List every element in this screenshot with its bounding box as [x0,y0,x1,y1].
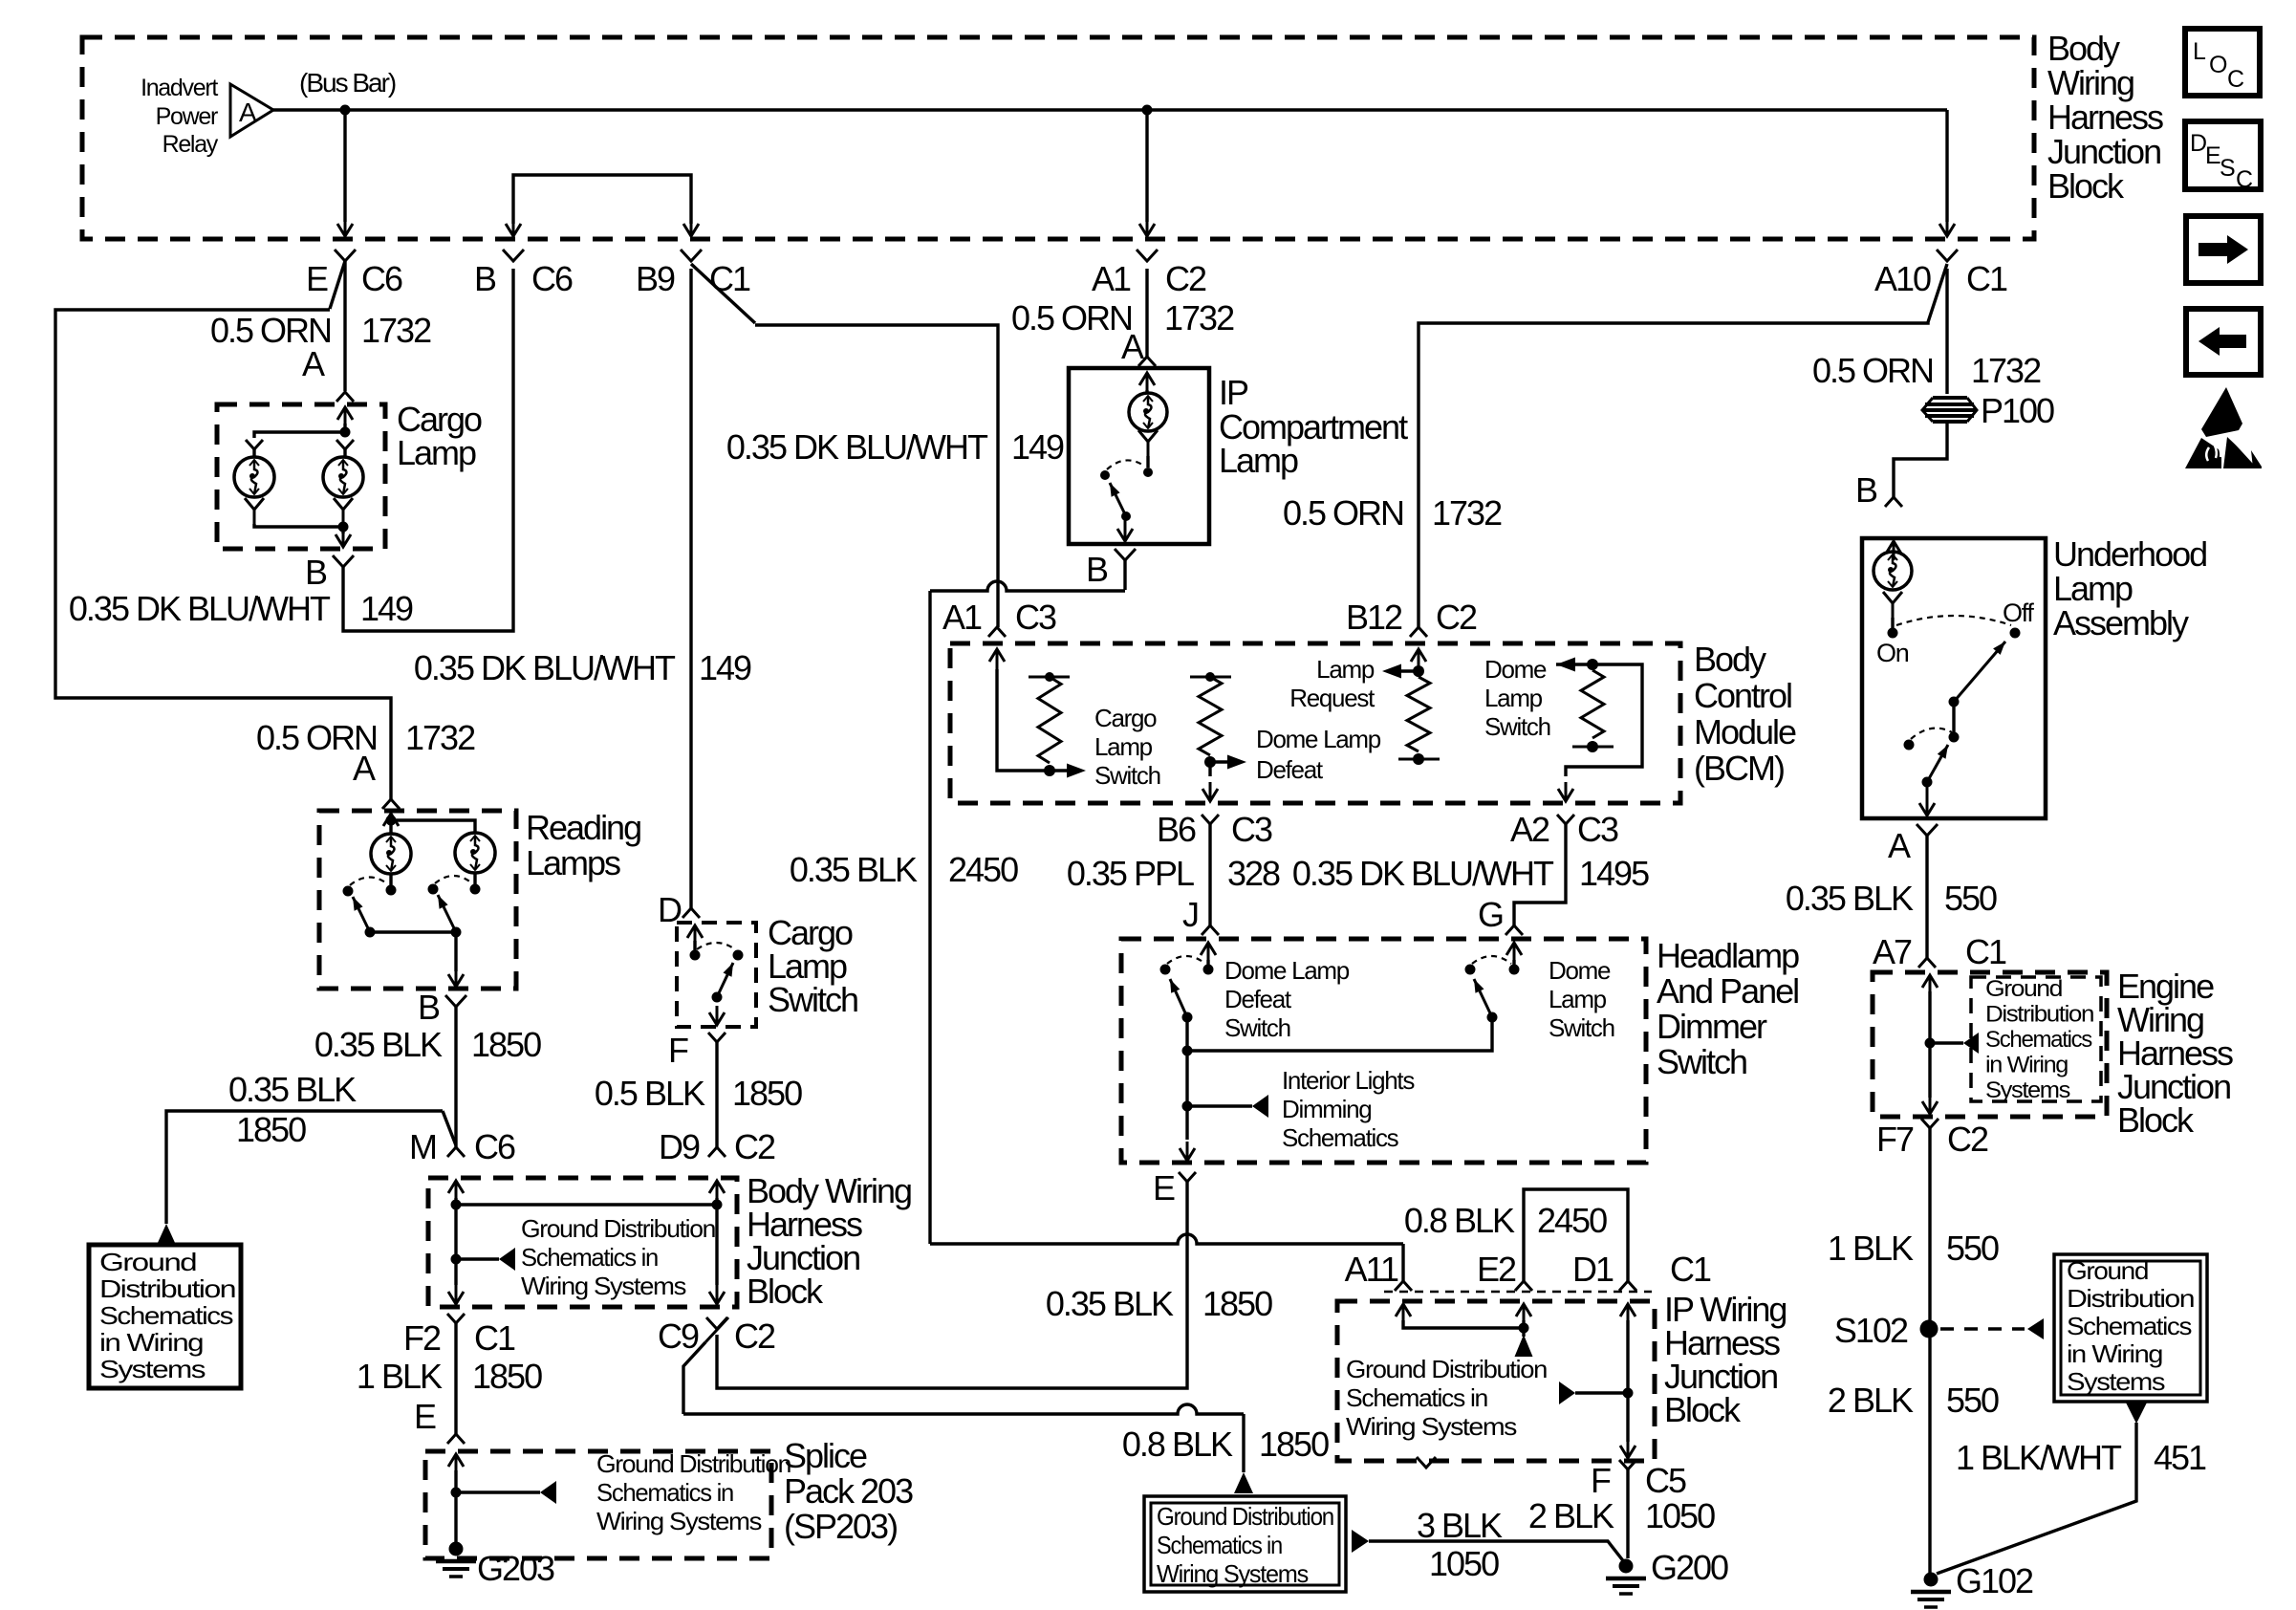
ground G200 [1619,1559,1634,1574]
svg-text:0.5 ORN: 0.5 ORN [1812,351,1933,390]
switch S5: Cargo Lamp Switch (dashed box) [677,923,756,1027]
svg-text:D: D [2190,130,2206,157]
svg-text:G: G [1478,895,1503,934]
reference arrow: Interior Lights Dimming Schematics [1187,1104,1252,1107]
svg-text:M: M [409,1127,436,1166]
svg-text:B9: B9 [636,259,675,298]
svg-text:451: 451 [2154,1438,2206,1477]
terminal D of Cargo Lamp Switch [682,908,700,918]
svg-text:C3: C3 [1577,810,1618,849]
svg-text:Distribution: Distribution [99,1274,235,1303]
svg-text:1850: 1850 [236,1110,306,1149]
svg-text:1850: 1850 [1202,1284,1272,1323]
svg-text:0.35 DK BLU/WHT: 0.35 DK BLU/WHT [69,589,331,628]
connector B9/C1 of body junction block [681,250,702,261]
svg-text:1732: 1732 [1971,351,2041,390]
svg-text:Block: Block [1664,1390,1742,1429]
connector B/C6 of body junction block [503,250,524,261]
wire: 0.35 PPL 328 to dimmer switch J [1208,824,1211,925]
svg-text:Harness: Harness [2047,98,2163,137]
svg-text:2450: 2450 [1537,1201,1607,1240]
svg-text:Lamps: Lamps [526,843,620,882]
wire: drop to terminal A1/C2 with exit arrow [1145,110,1148,222]
wire: 0.35 BLK 1850 from reading lamps B to M/C6 [454,1007,457,1147]
svg-text:1850: 1850 [732,1074,802,1113]
svg-text:Wiring Systems: Wiring Systems [596,1507,762,1535]
connector F7/C2 [1921,1119,1939,1128]
svg-text:C1: C1 [1966,259,2007,298]
wire: internal jumper B/C6 to B9/C1 with exit arrows [513,175,691,224]
connector A1/C2 of IP harness [1137,250,1158,261]
reference arrow into ground distribution box [1234,1472,1253,1493]
svg-text:Ground: Ground [1985,976,2062,1002]
svg-text:550: 550 [1946,1229,1999,1268]
svg-text:1732: 1732 [1164,298,1234,337]
svg-text:F7: F7 [1876,1120,1914,1159]
svg-text:(BCM): (BCM) [1694,749,1784,788]
svg-text:Junction: Junction [2047,132,2160,171]
svg-text:2 BLK: 2 BLK [1528,1496,1614,1535]
wire: 2 BLK 1050 from F/C5 to G200 [1626,1469,1629,1558]
switch S4: reading lamp switches [389,874,392,885]
signal arrow: Lamp Request [1400,669,1419,672]
reference arrow: ground distribution (body JB) [456,1257,499,1260]
svg-text:C1: C1 [474,1318,515,1358]
svg-text:IP: IP [1219,373,1248,412]
svg-text:(Bus Bar): (Bus Bar) [299,68,396,98]
terminal B of Reading Lamps [445,995,466,1007]
svg-text:B6: B6 [1157,810,1196,849]
connector A11 [1395,1281,1412,1291]
wire: 0.35 DK BLU/WHT 1495 to dimmer switch G [1514,824,1566,925]
svg-text:E: E [2205,142,2220,169]
wire: P100 to Underhood Lamp B [1894,422,1947,497]
svg-text:A1: A1 [942,598,982,637]
svg-text:Schematics in: Schematics in [521,1243,658,1272]
svg-text:2450: 2450 [948,850,1018,889]
svg-text:Underhood: Underhood [2053,534,2206,574]
terminal F of Cargo Lamp Switch [708,1033,726,1042]
svg-text:328: 328 [1227,854,1280,893]
legend box: left arrow [2186,309,2261,375]
svg-text:Dome: Dome [1484,655,1547,684]
wire: 0.35 BLK 2450 from IP lamp B, hop over BCM wire, down to IP junction A11 [1123,560,1126,590]
signal arrow: Cargo Lamp Switch [1050,769,1068,772]
wire: 0.5 ORN 1732 from E/C6 straight down to Cargo Lamp A [343,261,346,391]
svg-text:Systems: Systems [1985,1077,2070,1103]
svg-text:1732: 1732 [361,311,431,350]
svg-text:Wiring Systems: Wiring Systems [521,1272,686,1300]
svg-text:D9: D9 [659,1127,700,1166]
svg-text:B: B [474,259,496,298]
svg-text:0.5 ORN: 0.5 ORN [1011,298,1132,337]
svg-text:A: A [1121,327,1144,366]
svg-text:Dome: Dome [1549,956,1611,985]
terminal B of Cargo Lamp [333,555,354,567]
wire: reading lamps feed split [390,814,393,833]
svg-text:0.5 BLK: 0.5 BLK [595,1074,705,1113]
junction block U4: IP Wiring Harness Junction Block (dashed box) [1337,1301,1655,1461]
svg-text:Inadvert: Inadvert [141,75,218,101]
svg-text:C2: C2 [1436,598,1477,637]
relay K1: Inadvert Power Relay (triangle symbol with pin A) [230,84,273,137]
svg-text:0.35 DK BLU/WHT: 0.35 DK BLU/WHT [1292,854,1554,893]
svg-text:L: L [2193,38,2206,65]
svg-text:Power: Power [156,103,218,130]
svg-text:C: C [2227,66,2244,93]
svg-text:S: S [2220,155,2235,182]
wire: through engine junction block [1928,991,1931,1098]
svg-text:F2: F2 [403,1318,441,1358]
junction block U5: Engine Wiring Harness Junction Block (dashed box) [1873,972,2107,1117]
lamp L1: cargo lamp bulb left [234,457,274,497]
svg-text:Ground Distribution: Ground Distribution [1157,1502,1333,1531]
svg-text:C9: C9 [658,1316,699,1356]
svg-text:Ground: Ground [99,1248,196,1276]
svg-text:149: 149 [360,589,413,628]
svg-text:Switch: Switch [1224,1013,1290,1042]
terminal E of dimmer switch [1179,1172,1196,1182]
svg-text:Wiring Systems: Wiring Systems [1157,1559,1309,1588]
switch: dome lamp switch contacts [1513,943,1516,964]
svg-text:Off: Off [2003,598,2034,627]
wire: IP lamp feed [1146,373,1149,394]
svg-text:F: F [1591,1461,1611,1500]
svg-text:A: A [1888,826,1911,865]
resistor R2: dome lamp defeat pull-up [1190,676,1231,679]
svg-text:A: A [239,98,257,127]
reference box: Ground Distribution Schematics in Wiring Systems (right) [2054,1254,2207,1402]
wire: 0.5 BLK 1850 from F to D9/C2 [715,1042,718,1147]
svg-text:G200: G200 [1651,1548,1728,1587]
terminal B of Underhood Lamp Assembly [1885,497,1902,507]
svg-text:0.35 DK BLU/WHT: 0.35 DK BLU/WHT [414,648,676,687]
svg-text:Switch: Switch [1094,761,1160,790]
wire: 0.35 DK BLU/WHT 149 from Cargo Lamp B to B/C6 [343,269,513,631]
connector B6/C3 under BCM [1202,815,1219,824]
wire: BCM cargo lamp switch input [997,669,1050,771]
svg-text:3 BLK: 3 BLK [1417,1506,1503,1545]
svg-text:Schematics: Schematics [2067,1312,2192,1340]
svg-text:0.8 BLK: 0.8 BLK [1404,1201,1515,1240]
svg-text:Request: Request [1289,684,1375,712]
wire: BCM lamp request input [1417,669,1419,677]
svg-text:C6: C6 [474,1127,515,1166]
wire: underhood lamp feed [1893,541,1895,560]
svg-text:On: On [1876,639,1909,667]
splice pack SP203 (dashed box) [425,1451,771,1558]
svg-text:550: 550 [1946,1381,1999,1420]
switch S2: underhood lamp switch On/Off [1883,592,1902,618]
svg-text:0.5 ORN: 0.5 ORN [1283,493,1403,533]
svg-text:C6: C6 [361,259,402,298]
svg-text:C2: C2 [734,1127,775,1166]
switch S1: IP lamp door switch [1138,430,1158,456]
svg-text:Block: Block [2047,166,2125,206]
ground G203 [454,1492,457,1544]
svg-text:Dimmer: Dimmer [1657,1007,1767,1046]
svg-text:B12: B12 [1346,598,1402,637]
connector A1/C3 into BCM [988,627,1006,637]
svg-text:Interior Lights: Interior Lights [1282,1066,1415,1095]
svg-text:in Wiring: in Wiring [99,1328,203,1357]
svg-text:C3: C3 [1015,598,1056,637]
svg-text:0.35 BLK: 0.35 BLK [314,1025,443,1064]
svg-text:Distribution: Distribution [1985,1002,2093,1028]
svg-text:1850: 1850 [472,1357,542,1396]
svg-text:C1: C1 [1670,1250,1711,1289]
svg-text:Pack 203: Pack 203 [784,1471,913,1511]
svg-text:A10: A10 [1874,259,1931,298]
svg-text:Splice: Splice [784,1436,867,1475]
connector at IP JB bottom edge [1417,1457,1436,1468]
svg-text:C3: C3 [1231,810,1272,849]
svg-text:Ground Distribution: Ground Distribution [596,1449,791,1478]
svg-text:G102: G102 [1956,1561,2033,1600]
splice S102 [1920,1320,1939,1338]
lamp assembly E3: Underhood Lamp Assembly (solid box) [1862,538,2046,818]
connector A10/C1 of body junction block [1937,250,1958,261]
svg-text:A11: A11 [1345,1250,1398,1289]
wire: 1 BLK/WHT 451 from ground distribution box to G102 [2126,1403,2147,1424]
svg-text:1850: 1850 [471,1025,541,1064]
svg-text:Switch: Switch [768,980,857,1019]
svg-text:C1: C1 [709,259,750,298]
svg-text:Cargo: Cargo [1094,704,1157,732]
wire: dome lamp switch loop to A2/C3 output [1566,664,1642,776]
svg-text:Dome Lamp: Dome Lamp [1224,956,1350,985]
legend box: LOC [2185,29,2260,96]
inner reference dashed box (engine JB) [1971,977,2101,1101]
wire: 0.5 ORN 1732 from A1/C2 down to IP lamp A [1145,269,1148,357]
wire: 0.35 BLK 1850 from dimmer E down, left to body junction C9/C2 [717,1182,1187,1388]
svg-text:B: B [1855,470,1877,510]
legend box: DESC [2185,121,2261,189]
svg-text:A1: A1 [1092,259,1131,298]
svg-text:C2: C2 [1947,1120,1988,1159]
svg-text:149: 149 [699,648,751,687]
svg-text:B: B [305,553,327,592]
svg-text:Switch: Switch [1657,1042,1746,1081]
svg-text:P100: P100 [1981,391,2054,430]
svg-text:A: A [353,749,376,788]
svg-text:Schematics: Schematics [99,1301,233,1330]
connector face line (fine dashes) [1384,1291,1652,1294]
svg-text:Ground Distribution: Ground Distribution [521,1214,715,1243]
svg-text:Lamp: Lamp [1219,441,1298,480]
wire: D1 through IP junction block [1626,1320,1629,1442]
connector M/C6 with slash [447,1147,465,1157]
lamp L2: cargo lamp bulb right [323,457,363,497]
svg-text:(SP203): (SP203) [784,1507,897,1546]
wire: B9/C1 diagonal to horizontal run toward BCM A1/C3 [691,264,755,323]
node: bus bar junction at x=361 [340,105,351,116]
svg-text:Lamp: Lamp [1316,655,1375,684]
svg-text:Lamp: Lamp [1484,684,1543,712]
svg-text:1050: 1050 [1645,1496,1715,1535]
lamp L5: reading lamp left [371,834,411,874]
node: bus bar junction at x=1200 [1142,105,1153,116]
svg-text:And Panel: And Panel [1657,971,1798,1011]
reference arrow: ground distribution triangle (IP JB) [1515,1335,1533,1357]
wire: 1 BLK 1850 from F2/C1 to splice pack E [454,1323,457,1434]
module U2: Body Control Module BCM (dashed box) [950,643,1680,803]
svg-text:0.35 BLK: 0.35 BLK [228,1070,357,1109]
wire: A10/C1 diagonal + horizontal to B12 drop [1419,264,1947,627]
wire: dimmer switch common bus [1187,1017,1492,1051]
connector A2/C3 under BCM [1557,815,1574,824]
svg-text:Assembly: Assembly [2053,603,2189,642]
reference arrow: ground distribution (engine JB) [1930,1041,1963,1044]
lamp L4: underhood bulb [1874,552,1912,590]
switch: dome lamp defeat switch contacts [1207,943,1210,964]
svg-text:1 BLK: 1 BLK [1828,1229,1914,1268]
svg-text:C: C [2236,166,2253,193]
svg-text:S102: S102 [1834,1311,1908,1350]
svg-text:Distribution: Distribution [2067,1284,2194,1313]
wire: 0.8 BLK 1850 branch from C9/C2 to ground distribution [683,1342,705,1414]
lamp assembly E2: IP Compartment Lamp (solid box) [1069,368,1209,544]
svg-text:E: E [414,1397,436,1436]
svg-text:Schematics: Schematics [1985,1027,2092,1053]
lamp assembly E1: Cargo Lamp (dashed box) [217,404,385,549]
svg-text:B: B [1086,550,1108,589]
junction block U3: Body Wiring Harness Junction Block (lower dashed box) [428,1178,737,1307]
wire: dome lamp defeat output to B6/C3 [1208,762,1211,776]
icon: ESD-sensitive device symbol [2201,387,2242,437]
svg-text:Block: Block [747,1272,824,1311]
svg-text:Schematics in: Schematics in [1346,1383,1487,1412]
svg-text:Systems: Systems [2067,1367,2165,1396]
svg-text:B: B [418,988,440,1027]
svg-text:E2: E2 [1477,1250,1516,1289]
svg-text:A7: A7 [1873,932,1912,971]
svg-text:Control: Control [1694,676,1791,715]
svg-text:Body: Body [1694,640,1766,679]
wire: internal bus of lower body junction block [454,1198,457,1205]
wire: 0.5 ORN 1732 from E/C6 down-left to Reading Lamps A [330,261,345,309]
svg-text:Headlamp: Headlamp [1657,936,1799,975]
svg-text:Wiring: Wiring [2047,63,2134,102]
svg-text:Defeat: Defeat [1224,985,1292,1013]
svg-text:Dome Lamp: Dome Lamp [1256,725,1381,753]
wire: 0.35 BLK 1850 stub to ground distribution reference (left) [166,1111,443,1224]
svg-text:0.35 BLK: 0.35 BLK [790,850,918,889]
svg-text:0.35 DK BLU/WHT: 0.35 DK BLU/WHT [726,427,988,467]
svg-text:Schematics: Schematics [1282,1123,1399,1152]
svg-text:Block: Block [2117,1100,2195,1140]
reference arrow: ground distribution (IP JB right) [1575,1391,1628,1394]
connector F/C5 [1619,1460,1636,1469]
svg-text:0.8 BLK: 0.8 BLK [1122,1425,1233,1464]
svg-text:1 BLK/WHT: 1 BLK/WHT [1956,1438,2122,1477]
junction block U1: Body Wiring Harness Junction Block (dashed box, top) [82,37,2034,239]
svg-text:J: J [1182,895,1198,934]
svg-text:550: 550 [1944,879,1997,918]
svg-text:C2: C2 [734,1316,775,1356]
svg-text:1 BLK: 1 BLK [357,1357,443,1396]
connector D9/C2 [708,1147,726,1157]
svg-text:Lamp: Lamp [1549,985,1607,1013]
svg-text:1495: 1495 [1579,854,1649,893]
svg-text:F: F [668,1031,688,1070]
resistor R3: lamp request pull-up [1407,677,1430,751]
connector E/C6 of body junction block [335,250,356,261]
svg-text:Lamp: Lamp [1094,732,1153,761]
svg-text:0.35 BLK: 0.35 BLK [1786,879,1914,918]
wire: bus bar end drop to terminal A10/C1 with exit arrow [1945,110,1948,222]
wire: E2-D1 external jumper [1524,1189,1628,1281]
wire: drop to terminal E/C6 with exit arrow [343,110,346,222]
svg-text:Lamp: Lamp [2053,569,2133,608]
svg-text:Reading: Reading [526,808,640,847]
svg-text:Switch: Switch [1549,1013,1614,1042]
svg-text:C5: C5 [1645,1461,1686,1500]
svg-text:Systems: Systems [99,1355,206,1383]
svg-text:Switch: Switch [1484,712,1550,741]
wire: B9/C1 straight down to Cargo Lamp Switch D [689,269,692,908]
lamp L6: reading lamp right [455,833,495,873]
svg-text:1850: 1850 [1259,1425,1329,1464]
svg-text:0.35 PPL: 0.35 PPL [1067,854,1194,893]
legend box: right arrow [2186,216,2261,283]
reference arrow: ground distribution (splice pack) [456,1490,540,1493]
svg-text:1732: 1732 [405,718,475,757]
svg-text:A2: A2 [1510,810,1549,849]
svg-text:Schematics in: Schematics in [596,1478,733,1507]
reference box: Ground Distribution Schematics in Wiring Systems (left) [89,1245,241,1388]
svg-text:A: A [302,344,325,383]
connector E2 [1515,1281,1532,1291]
reference dashed arrow: S102 to ground distribution box [1940,1327,2025,1331]
connector D1 [1619,1281,1636,1291]
signal arrow: Dome Lamp Defeat [1210,760,1228,763]
wire: cargo lamp internal feed [344,407,347,428]
svg-text:1050: 1050 [1429,1544,1499,1583]
signal arrow: Dome Lamp Switch [1556,658,1575,672]
svg-text:0.35 BLK: 0.35 BLK [1046,1284,1174,1323]
svg-text:Schematics in: Schematics in [1157,1531,1282,1559]
svg-text:Body: Body [2047,29,2120,68]
svg-text:1732: 1732 [1432,493,1502,533]
svg-text:2 BLK: 2 BLK [1828,1381,1914,1420]
wire: 0.35 BLK 2450 horizontal with hop, down to A11 [930,1234,1403,1244]
wire: dimmer switch output to E [1185,1106,1188,1140]
wire: bus bar from relay A across junction block [273,108,1947,111]
svg-text:G203: G203 [477,1549,554,1588]
svg-text:O: O [2209,52,2227,78]
lamp assembly E4: Reading Lamps (dashed box) [319,811,516,989]
connector C9/C2 with slash [706,1317,727,1329]
svg-text:Lamp: Lamp [397,433,476,472]
ground G102 [1924,1573,1939,1587]
terminal B of IP Compartment Lamp [1115,549,1136,560]
wire: diagonal into M/C6 [443,1111,456,1145]
svg-text:Wiring Systems: Wiring Systems [1346,1412,1517,1441]
wire: 1 BLK 550 from F7/C2 to S102 [1928,1128,1931,1575]
resistor R1: cargo lamp switch pull-up [1029,676,1070,679]
wire: 0.5 ORN 1732 from A10/C1 down to P100 [1945,269,1948,394]
svg-text:Ground Distribution: Ground Distribution [1346,1355,1547,1383]
reference box: Ground Distribution Schematics in Wiring Systems (mid) [1144,1496,1346,1592]
resistor R4: dome lamp switch pull-up [1581,670,1604,738]
connector B12/C2 into BCM [1410,627,1427,637]
svg-text:Relay: Relay [162,131,219,158]
svg-text:in Wiring: in Wiring [2067,1339,2162,1368]
svg-text:C2: C2 [1165,259,1206,298]
svg-text:Defeat: Defeat [1256,755,1324,784]
svg-text:Dimming: Dimming [1282,1095,1371,1123]
